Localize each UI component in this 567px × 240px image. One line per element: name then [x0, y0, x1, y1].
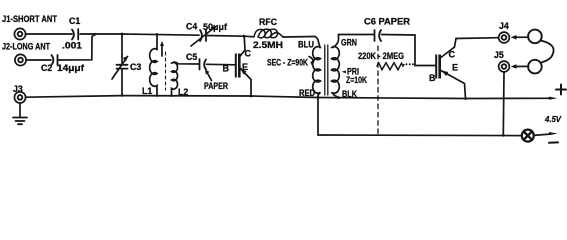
- junction: [121, 94, 124, 97]
- core: [324, 45, 326, 95]
- headphone plug arrow J5: [511, 64, 529, 69]
- svg-text:50μμf: 50μμf: [203, 22, 227, 32]
- ground: [13, 103, 27, 124]
- secondary winding: [313, 47, 321, 98]
- svg-text:14μμf: 14μμf: [57, 63, 84, 73]
- dotted link resistor to base node: [406, 63, 415, 65]
- svg-text:E: E: [242, 62, 248, 72]
- junction: [464, 97, 467, 100]
- battery - arrowhead: [549, 132, 558, 135]
- svg-text:J4: J4: [499, 21, 509, 31]
- transistor Q1: [235, 36, 251, 96]
- label PAPER with arrow: [205, 69, 212, 80]
- BLU drop: [315, 37, 320, 48]
- svg-text:C3: C3: [130, 62, 141, 72]
- dashed drop line: [377, 46, 379, 135]
- wire C2 riser to top rail: [59, 34, 96, 60]
- headphone plug arrow J4: [511, 35, 529, 40]
- collector lead: [440, 39, 457, 59]
- junction: [156, 95, 158, 97]
- svg-text:220K - 2MEG: 220K - 2MEG: [358, 51, 404, 61]
- primary winding: [332, 47, 340, 98]
- GRN riser: [333, 35, 374, 48]
- battery + sign: [556, 85, 566, 95]
- svg-text:C: C: [449, 50, 456, 60]
- SEC pointer squiggle: [309, 57, 313, 63]
- headphone earpiece 1: [528, 30, 542, 44]
- junction (BLK): [337, 96, 340, 99]
- svg-text:J1-SHORT ANT: J1-SHORT ANT: [2, 14, 57, 25]
- RFC choke: [244, 29, 315, 38]
- svg-text:C6 PAPER: C6 PAPER: [364, 17, 411, 27]
- wire J3 to mid rail (+ rail): [26, 96, 551, 99]
- headphone earpiece 2: [528, 60, 542, 74]
- svg-text:Z=10K: Z=10K: [346, 75, 368, 85]
- connector J5: [499, 61, 510, 72]
- base bar: [235, 54, 237, 78]
- variable capacitor C4: [191, 26, 217, 47]
- svg-text:BLU: BLU: [298, 40, 314, 50]
- wire collector to J4: [456, 37, 498, 40]
- junction: [121, 33, 124, 36]
- capacitor C2: [52, 55, 58, 65]
- junction: [243, 35, 246, 38]
- junction: [502, 134, 505, 137]
- emitter lead with arrow: [240, 68, 252, 97]
- L1 tuning arrow: [160, 41, 164, 56]
- resistor 220K-2MEG: [377, 63, 404, 70]
- svg-text:C4: C4: [186, 22, 197, 32]
- svg-text:C2: C2: [41, 63, 52, 73]
- wire C4 to RFC junction: [207, 35, 244, 38]
- junction: [250, 95, 253, 98]
- wire C1 to C4 (top rail): [80, 34, 199, 35]
- junction: [156, 33, 159, 36]
- wire J5 to bottom rail: [502, 72, 505, 135]
- svg-text:4.5V: 4.5V: [544, 114, 562, 124]
- inductor L2: [172, 62, 200, 96]
- base bar: [435, 55, 437, 79]
- svg-text:GRN: GRN: [341, 38, 357, 48]
- svg-text:B: B: [223, 64, 230, 74]
- battery - sign: [549, 141, 558, 143]
- svg-text:C5: C5: [186, 52, 197, 62]
- svg-text:PAPER: PAPER: [204, 81, 229, 91]
- junction (RED cross): [317, 96, 320, 99]
- connector J4: [499, 32, 510, 43]
- svg-text:SEC - Z=90K: SEC - Z=90K: [267, 58, 308, 68]
- inductor L1: [150, 34, 157, 95]
- connector J1: [14, 28, 25, 39]
- capacitor C5: [200, 59, 237, 70]
- svg-text:BLK: BLK: [342, 89, 358, 99]
- svg-text:C1: C1: [69, 16, 80, 26]
- wire J2 to C2: [26, 59, 51, 61]
- emitter lead with arrow: [440, 70, 466, 99]
- svg-text:RFC: RFC: [259, 17, 278, 27]
- wire RED drop to bottom rail: [317, 98, 319, 136]
- wire C6 to Q2 base: [382, 35, 437, 66]
- transistor Q2: [435, 39, 465, 99]
- svg-text:C: C: [245, 49, 252, 59]
- wire lamp to battery minus: [534, 134, 551, 135]
- collector lead: [239, 36, 245, 57]
- svg-text:J3: J3: [13, 84, 23, 94]
- svg-text:E: E: [452, 63, 458, 73]
- transformer T1: [313, 35, 374, 98]
- wire J1 to C1: [26, 33, 72, 35]
- headphone band: [541, 41, 554, 63]
- junction: [94, 33, 97, 36]
- variable capacitor C3: [112, 34, 128, 96]
- svg-text:J2-LONG ANT: J2-LONG ANT: [2, 42, 50, 53]
- battery + arrowhead: [549, 97, 558, 100]
- svg-text:2.5MH: 2.5MH: [253, 40, 283, 50]
- svg-text:.001: .001: [62, 41, 82, 51]
- svg-text:L2: L2: [178, 87, 188, 97]
- capacitor C1: [72, 29, 78, 40]
- core dashes L1/L2: [165, 52, 167, 90]
- svg-text:B: B: [429, 73, 436, 83]
- connector J3: [14, 92, 25, 103]
- svg-text:L1: L1: [142, 86, 152, 96]
- svg-text:RED: RED: [299, 88, 315, 98]
- lamp: [522, 130, 534, 142]
- connector J2: [15, 54, 26, 65]
- capacitor C6: [375, 30, 382, 41]
- svg-text:J5: J5: [494, 50, 504, 60]
- bottom rail: [318, 134, 522, 137]
- PRI pointer: [342, 71, 347, 74]
- junction: [170, 95, 172, 97]
